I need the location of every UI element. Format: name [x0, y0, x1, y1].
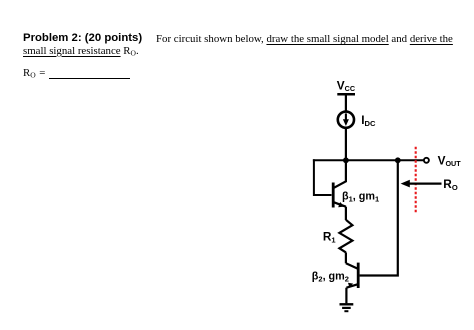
- wire output node down to Q2 base: [360, 160, 398, 275]
- wire base loop Q1: [314, 159, 332, 195]
- current source IDC arrow: [343, 113, 349, 126]
- svg-text:VCC: VCC: [337, 78, 355, 93]
- wire R1 to Q2 collector: [345, 252, 347, 263]
- junction node output: [395, 157, 401, 163]
- wire node A rail: [313, 159, 424, 161]
- transistor Q1 base bar: [332, 183, 335, 208]
- svg-text:IDC: IDC: [361, 113, 376, 128]
- svg-text:β1, gm1: β1, gm1: [342, 191, 379, 204]
- wire VCC to current source: [345, 94, 347, 112]
- power VCC bar: [337, 93, 355, 96]
- arrow RO looking into output: [401, 180, 442, 188]
- red dashed cut line: [415, 147, 417, 213]
- terminal VOUT open circle: [424, 158, 429, 163]
- wire Q2 emitter to ground: [345, 288, 347, 304]
- transistor Q1 collector: [334, 160, 346, 188]
- transistor Q2 collector diagonal: [346, 263, 358, 268]
- transistor Q2 emitter with arrow (PNP, pointing to bar): [346, 283, 358, 288]
- wire Q1 emitter to R1: [345, 207, 347, 220]
- svg-text:R1: R1: [323, 230, 337, 245]
- wire current source to node A: [345, 128, 347, 160]
- transistor Q2 base bar: [357, 263, 360, 288]
- ground: [340, 304, 354, 311]
- svg-text:RO: RO: [443, 177, 458, 192]
- svg-text:β2, gm2: β2, gm2: [312, 271, 349, 284]
- junction node A: [343, 157, 349, 163]
- transistor Q1 emitter with arrow: [334, 202, 346, 207]
- svg-text:VOUT: VOUT: [438, 153, 462, 168]
- resistor R1 zigzag: [339, 220, 352, 253]
- current source IDC circle: [338, 112, 354, 128]
